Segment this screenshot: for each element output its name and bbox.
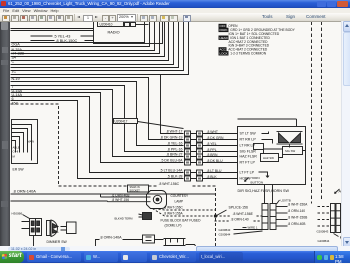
wire .5 YEL-43 bbox=[31, 35, 94, 39]
wire 1 label bbox=[243, 226, 258, 230]
svg-text:BUTTON: BUTTON bbox=[251, 181, 264, 185]
wire .8 ORN-140A bottom bbox=[100, 235, 197, 248]
svg-text:.5 LT BLU-14A: .5 LT BLU-14A bbox=[160, 169, 183, 173]
svg-text:M: M bbox=[13, 155, 16, 159]
radio box bbox=[94, 21, 163, 44]
scan edge strip bbox=[0, 21, 10, 251]
svg-text:O HI: O HI bbox=[13, 150, 19, 154]
svg-text:U200410: U200410 bbox=[100, 23, 113, 27]
svg-text:G200B43: G200B43 bbox=[219, 228, 231, 232]
taskbar bbox=[0, 251, 350, 263]
wire from dimmer down bbox=[34, 236, 100, 249]
svg-text:LAMP: LAMP bbox=[175, 200, 184, 204]
switch detail box (column) bbox=[12, 120, 38, 172]
svg-text:SOCKET: SOCKET bbox=[130, 189, 141, 192]
dashed wire .8 WHT-156E bbox=[216, 212, 262, 216]
wires connector to DIR SIG switch bbox=[207, 130, 238, 179]
connector U200417 bbox=[114, 119, 208, 182]
canceling cam (triangles) bbox=[277, 132, 303, 148]
wire pair top bbox=[11, 29, 94, 31]
right harness connector strip bbox=[317, 204, 345, 249]
svg-text:C: C bbox=[12, 60, 15, 64]
svg-text:PARK: PARK bbox=[220, 28, 228, 32]
svg-text:.8 WHT-156A: .8 WHT-156A bbox=[288, 203, 309, 207]
grounds G200B43 G200B44 (left) bbox=[219, 228, 263, 237]
dashed harness boundary lines bbox=[312, 22, 322, 204]
svg-text:COURTESY: COURTESY bbox=[171, 194, 190, 198]
ignition switch legend bbox=[219, 24, 296, 56]
dashed wire .8 WHT-156C to fuse block bbox=[155, 206, 216, 211]
svg-text:.5 BLK-28: .5 BLK-28 bbox=[167, 175, 183, 179]
svg-text:U200417: U200417 bbox=[115, 120, 128, 124]
svg-text:.8 YEL-16: .8 YEL-16 bbox=[167, 142, 183, 146]
svg-text:G200B43: G200B43 bbox=[317, 229, 329, 233]
courtesy lamp bbox=[147, 191, 190, 209]
wire .8 WHT-156 bbox=[108, 198, 151, 202]
horizontal scrollbar bbox=[0, 246, 350, 251]
svg-text:.5 DK BLU-6A: .5 DK BLU-6A bbox=[161, 159, 184, 163]
svg-text:1-2-3 TERMS COMMON: 1-2-3 TERMS COMMON bbox=[230, 52, 267, 56]
svg-text:H300B6: H300B6 bbox=[12, 212, 23, 216]
svg-text:RADIO: RADIO bbox=[108, 31, 120, 35]
svg-text:.6 ORN-40B: .6 ORN-40B bbox=[112, 193, 131, 197]
svg-text:G200B44: G200B44 bbox=[318, 239, 330, 243]
wire .8 BLK-150C bbox=[31, 39, 94, 43]
dimmer switch symbol bbox=[47, 220, 77, 244]
svg-text:.8 PPL-16: .8 PPL-16 bbox=[167, 148, 183, 152]
svg-text:.8 WHT-156B: .8 WHT-156B bbox=[288, 216, 309, 220]
svg-text:.8 ORN-140A: .8 ORN-140A bbox=[100, 235, 123, 239]
wire bundle cascade 1 (to radio harness) bbox=[11, 22, 189, 75]
svg-text:SPLICE-156: SPLICE-156 bbox=[229, 206, 249, 210]
connector H300B6 bbox=[12, 212, 42, 236]
off-page arrow A bbox=[335, 189, 342, 194]
svg-text:HEAD: HEAD bbox=[220, 36, 229, 40]
svg-text:SIG SW: SIG SW bbox=[285, 149, 295, 153]
switch DIR SIG / HAZ FLSR / HORN SW bbox=[238, 119, 306, 185]
svg-text:.5 YEL-43: .5 YEL-43 bbox=[54, 35, 71, 39]
splice 156 bbox=[214, 206, 248, 218]
svg-text:(DOME LP): (DOME LP) bbox=[165, 224, 182, 228]
svg-text:FUSE BLOCK BAT FUSED: FUSE BLOCK BAT FUSED bbox=[161, 219, 202, 223]
svg-text:LOCK: LOCK bbox=[220, 52, 228, 56]
svg-text:HORN: HORN bbox=[251, 176, 260, 180]
courtesy lamp socket label bbox=[128, 185, 149, 192]
toolbar bbox=[0, 13, 350, 22]
wire bundle cascade 2 (to steering column connector) bbox=[11, 75, 184, 179]
svg-text:.8 ORN-40B: .8 ORN-40B bbox=[288, 222, 307, 226]
svg-text:BLKHD TERM: BLKHD TERM bbox=[115, 217, 134, 221]
svg-text:.8 WHT-17: .8 WHT-17 bbox=[166, 130, 183, 134]
dashed wire 150C bbox=[11, 104, 216, 250]
svg-text:ER SW: ER SW bbox=[13, 168, 25, 172]
fuse block label bbox=[161, 219, 202, 228]
sig sw contacts bbox=[254, 132, 306, 162]
svg-text:.8 WHT-156A: .8 WHT-156A bbox=[164, 212, 184, 216]
svg-text:RT RR LP: RT RR LP bbox=[240, 138, 257, 142]
bulkhead terminal bbox=[115, 213, 152, 221]
svg-text:.8 DK GRN-19: .8 DK GRN-19 bbox=[160, 136, 183, 140]
dashed wire .8 WHT-156A bbox=[153, 209, 214, 217]
svg-text:DIMMER SW: DIMMER SW bbox=[47, 240, 68, 244]
svg-text:ST LT SW: ST LT SW bbox=[240, 132, 257, 136]
svg-text:1C: 1C bbox=[12, 70, 17, 74]
title bar bbox=[0, 0, 350, 8]
svg-text:LT FT LP: LT FT LP bbox=[240, 171, 255, 175]
wire labels at connector U200417 bbox=[160, 130, 183, 179]
svg-text:.8 WHT-156C: .8 WHT-156C bbox=[164, 206, 184, 210]
wire .8 ORN-140A bbox=[11, 189, 216, 195]
horn button labels bbox=[245, 176, 264, 185]
svg-text:G200B44: G200B44 bbox=[219, 233, 231, 237]
wire .6 ORN-40B bbox=[101, 193, 151, 197]
svg-text:.8 WHT-156C: .8 WHT-156C bbox=[159, 182, 180, 186]
left edge wire labels bbox=[12, 43, 25, 106]
svg-text:HAZ FLSR: HAZ FLSR bbox=[240, 155, 258, 159]
svg-text:OGA: OGA bbox=[12, 43, 21, 47]
svg-text:.8 ORN-140: .8 ORN-140 bbox=[231, 217, 249, 221]
svg-text:SIG FLSR: SIG FLSR bbox=[240, 150, 257, 154]
svg-text:.8 ORN-140: .8 ORN-140 bbox=[288, 209, 306, 213]
wire to courtesy lamp bbox=[11, 194, 108, 202]
connector strip U297TB (left pair) bbox=[262, 185, 291, 230]
svg-text:RT FT LP: RT FT LP bbox=[240, 161, 256, 165]
vertical scrollbar bbox=[341, 21, 350, 246]
svg-text:MAIN: MAIN bbox=[28, 140, 35, 144]
connector U200410 bbox=[98, 22, 149, 27]
svg-text:.8 WHT-156: .8 WHT-156 bbox=[112, 198, 130, 202]
svg-text:.8 WHT-156E: .8 WHT-156E bbox=[233, 212, 254, 216]
svg-text:DIR SIG,HAZ FLSR,HORN SW: DIR SIG,HAZ FLSR,HORN SW bbox=[238, 189, 290, 193]
svg-text:.8 BRN-27: .8 BRN-27 bbox=[166, 153, 182, 157]
svg-text:HAZ SW: HAZ SW bbox=[263, 156, 274, 160]
svg-text:.8 ORN-140A: .8 ORN-140A bbox=[13, 189, 37, 194]
dashed wire .8 ORN-140 bbox=[215, 217, 262, 221]
menu bar bbox=[0, 8, 350, 13]
wires to right harness connector bbox=[276, 203, 331, 227]
